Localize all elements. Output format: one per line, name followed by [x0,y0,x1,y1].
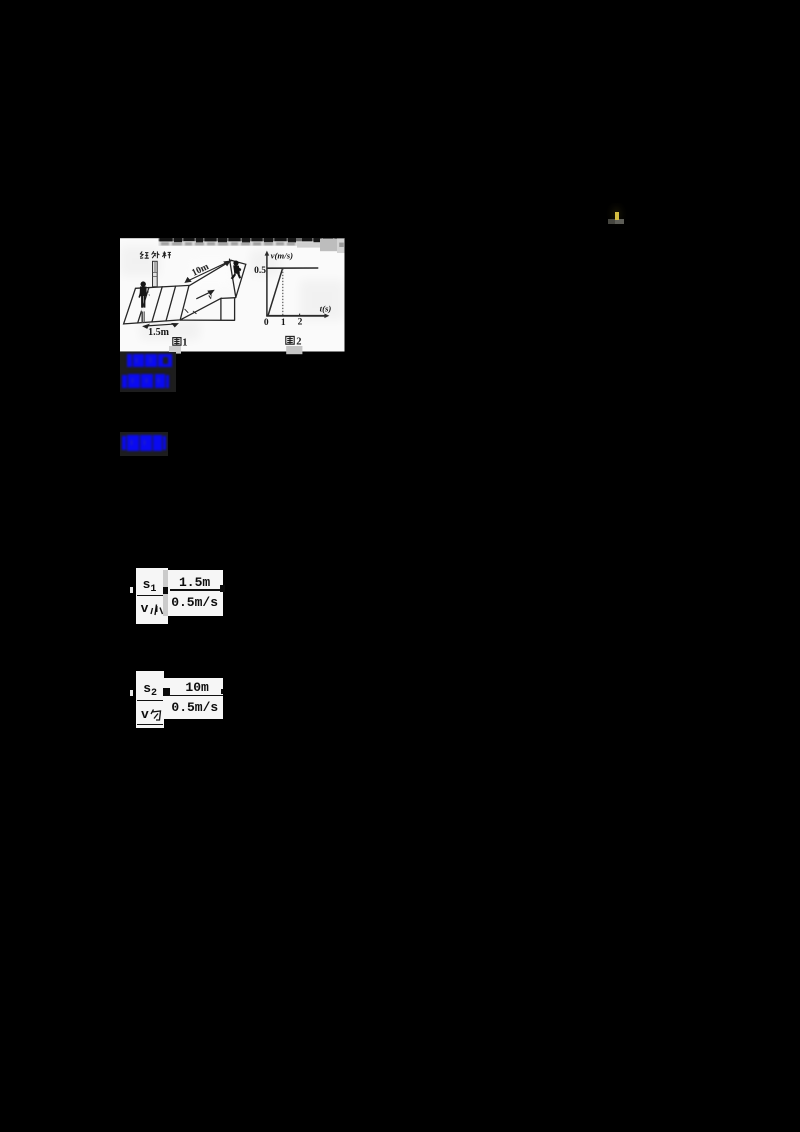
svg-text:0: 0 [264,318,269,328]
svg-text:2: 2 [298,318,303,328]
formula 2 [0,0,1,1]
dashes right of person [148,291,149,296]
right person walking [231,261,242,280]
svg-text:2: 2 [296,336,301,347]
f1 equals blob [163,587,170,594]
1.5m measuring arrow [143,323,177,329]
f2 numerator 10m [185,680,208,695]
upper landing [231,260,246,297]
blue label block 1+2 backing [120,352,176,391]
svg-text:0.5: 0.5 [254,266,266,276]
f1 gap strip [163,570,168,615]
svg-text:1.5m: 1.5m [148,327,170,338]
f1 right fraction bar [170,589,220,591]
f1 right black blob [220,585,225,592]
side wall [180,298,235,321]
yellow cursor mark [606,203,627,227]
rising line [268,268,283,316]
svg-text:t(s): t(s) [320,303,332,313]
f1 denominator 0.5m/s [171,595,218,610]
图2 caption [286,336,303,354]
f2 right white box [164,678,224,719]
blue label line 3 [122,435,167,450]
f2 left white box [136,671,164,728]
f2 numerator s2 [143,681,157,699]
blue label block 3 backing [120,432,168,456]
f1 numerator s1 [143,577,157,595]
f2 left fraction bar [137,700,163,702]
图1 caption [169,337,188,353]
10m measuring arrow [185,261,229,282]
f2 right fraction bar [169,695,223,697]
garbled caption strip [159,238,345,253]
svg-text:1: 1 [182,337,187,348]
f1 left white tick [130,587,133,593]
tick at t=2 [299,314,301,317]
blue label line 1 [127,354,173,367]
x axis [266,315,327,317]
left person standing [138,281,146,323]
f2 left white tick [130,690,133,695]
x axis arrowhead [324,314,329,319]
f1 left fraction bar [137,595,163,597]
dashed line t=1 [282,269,284,316]
formula 1 [0,0,1,1]
infrared pole [153,261,158,286]
svg-text:1: 1 [281,318,286,328]
belt right edge [230,259,236,297]
f1 denominator v小 [141,601,149,616]
panel paper mottling [120,246,344,340]
v arrow on belt [196,291,213,299]
walkway flat platform [124,285,189,324]
10m label [191,262,211,279]
f2 denominator 0.5m/s [171,700,218,715]
f2 right black blob [221,689,224,694]
y axis arrowhead [265,251,270,256]
f1 left white box [136,568,168,624]
incline belt bottom edge [180,298,221,320]
v=0.5 line [267,267,318,269]
ticks on belt lower edge [185,309,196,313]
svg-text:v(m/s): v(m/s) [271,251,294,261]
f2 denominator v匀 [141,707,149,722]
f2 underline [137,724,163,726]
panel background [120,238,345,351]
f1 right white box [168,570,223,615]
y axis [266,253,268,317]
blue label line 2 [122,374,169,388]
incline belt top edge [189,261,231,286]
f1 numerator 1.5m [179,575,210,590]
红外杆 label (squiggle glyphs) [140,251,171,258]
f2 equals blob [163,688,170,696]
platform step stripes [138,286,176,323]
